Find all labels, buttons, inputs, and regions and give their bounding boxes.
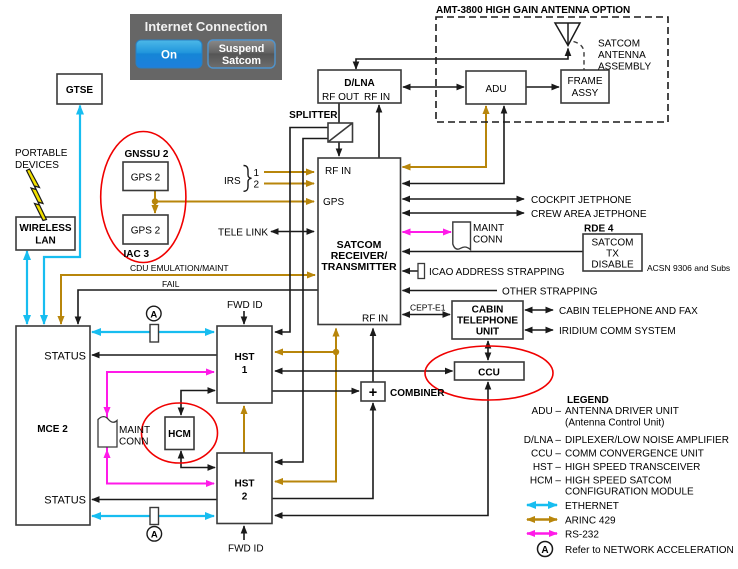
symbol network accel rect bottom <box>150 508 159 525</box>
box SATCOM TX DISABLE <box>583 234 642 271</box>
svg-text:ICAO ADDRESS STRAPPING: ICAO ADDRESS STRAPPING <box>429 267 565 278</box>
svg-text:RDE 4: RDE 4 <box>584 224 614 235</box>
wire ARINC IRS 2 <box>264 183 314 185</box>
svg-text:DISABLE: DISABLE <box>591 260 634 271</box>
wire CREW AREA JETPHONE <box>403 212 525 214</box>
circle A bottom <box>147 527 162 542</box>
box HCM <box>165 417 194 450</box>
wire FAIL SATCOM R/T to MCE2 <box>78 290 318 324</box>
box CCU <box>455 362 525 380</box>
svg-text:GPS 2: GPS 2 <box>131 173 161 184</box>
svg-text:HIGH SPEED TRANSCEIVER: HIGH SPEED TRANSCEIVER <box>565 462 700 473</box>
splitter <box>328 123 353 142</box>
svg-text:DEVICES: DEVICES <box>15 160 59 171</box>
svg-text:A: A <box>151 530 158 541</box>
svg-text:CCU –: CCU – <box>531 449 561 460</box>
svg-text:MAINT: MAINT <box>473 223 504 234</box>
svg-text:D/LNA: D/LNA <box>344 78 375 89</box>
svg-text:Refer to NETWORK ACCELERATION: Refer to NETWORK ACCELERATION <box>565 545 734 556</box>
wire ARINC GPS2 box1 to box2 <box>154 191 156 214</box>
internet connection panel <box>130 14 282 80</box>
wire ARINC HST2 to HST1 <box>243 406 245 453</box>
wire HST1 to CCU <box>275 370 453 372</box>
symbol MAINT CONN near SATCOM R/T <box>453 222 471 250</box>
svg-text:ADU –: ADU – <box>532 406 562 417</box>
dashed curve antenna to frame assy <box>574 42 585 70</box>
svg-text:D/LNA –: D/LNA – <box>524 435 562 446</box>
svg-text:TX: TX <box>606 249 619 260</box>
svg-text:CCU: CCU <box>478 368 500 379</box>
box GPS2 upper <box>123 162 168 191</box>
svg-text:FAIL: FAIL <box>162 279 180 289</box>
svg-text:Satcom: Satcom <box>222 55 261 67</box>
wire RS-232 HST1 to HST2 loop with MAINT CONN <box>107 372 214 484</box>
svg-text:CDU EMULATION/MAINT: CDU EMULATION/MAINT <box>130 263 229 273</box>
svg-text:(Antenna Control Unit): (Antenna Control Unit) <box>565 418 665 429</box>
svg-text:STATUS: STATUS <box>44 351 86 363</box>
wire ADU to FRAME ASSY <box>526 86 559 88</box>
legend rs232 arrow <box>527 532 557 534</box>
red ellipse GNSSU group <box>101 132 186 263</box>
svg-text:Suspend: Suspend <box>219 43 265 55</box>
legend text <box>524 395 734 556</box>
svg-text:ETHERNET: ETHERNET <box>565 501 619 512</box>
wire CEPT-E1 SATCOM R/T to CTU <box>403 314 451 316</box>
svg-text:MCE 2: MCE 2 <box>37 424 68 435</box>
wire D/LNA RF OUT to splitter <box>338 103 340 123</box>
svg-text:FWD ID: FWD ID <box>228 544 264 555</box>
svg-text:RS-232: RS-232 <box>565 530 599 541</box>
wire COMBINER to SATCOM R/T RF IN bottom <box>372 329 374 383</box>
wire SATCOM R/T to ADU black <box>403 106 505 184</box>
box D/LNA <box>318 70 401 103</box>
svg-text:GPS 2: GPS 2 <box>131 226 161 237</box>
svg-text:RF IN: RF IN <box>362 314 388 325</box>
box GTSE <box>57 74 102 104</box>
svg-text:LAN: LAN <box>35 236 56 247</box>
svg-text:TRANSMITTER: TRANSMITTER <box>321 261 397 273</box>
wire HCM to HST2 <box>181 451 215 468</box>
dashed box AMT-3800 option <box>436 17 668 122</box>
svg-text:ANTENNA DRIVER UNIT: ANTENNA DRIVER UNIT <box>565 406 679 417</box>
svg-text:AMT-3800 HIGH GAIN ANTENNA OPT: AMT-3800 HIGH GAIN ANTENNA OPTION <box>436 5 630 16</box>
svg-text:1: 1 <box>242 365 248 376</box>
svg-text:TELEPHONE: TELEPHONE <box>457 316 518 327</box>
svg-text:COCKPIT JETPHONE: COCKPIT JETPHONE <box>531 195 632 206</box>
svg-text:A: A <box>150 309 157 320</box>
wire ethernet MCE2 to HST1 <box>92 331 214 333</box>
svg-text:HST –: HST – <box>533 462 562 473</box>
symbol network accel rect top <box>150 325 159 343</box>
svg-text:IAC 3: IAC 3 <box>124 249 150 260</box>
svg-text:CABIN TELEPHONE AND FAX: CABIN TELEPHONE AND FAX <box>559 306 698 317</box>
svg-text:SATCOM: SATCOM <box>598 39 640 50</box>
wire TELE LINK <box>271 231 314 233</box>
svg-text:ADU: ADU <box>485 84 506 95</box>
box COMBINER <box>361 382 385 401</box>
wire ARINC SATCOM R/T bottom to HST1/HST2 <box>335 329 337 353</box>
svg-text:OTHER STRAPPING: OTHER STRAPPING <box>502 287 598 298</box>
wire antenna to D/LNA <box>356 49 568 70</box>
svg-text:CABIN: CABIN <box>472 305 504 316</box>
wire ICAO ADDRESS STRAPPING <box>403 270 425 272</box>
svg-text:PORTABLE: PORTABLE <box>15 148 68 159</box>
box SATCOM RECEIVER/TRANSMITTER <box>318 158 401 325</box>
svg-text:SATCOM: SATCOM <box>591 238 633 249</box>
wire CTU to CCU <box>487 341 489 360</box>
box CABIN TELEPHONE UNIT <box>452 301 523 339</box>
box WIRELESS LAN <box>16 217 75 250</box>
circle A top <box>147 306 162 321</box>
symbol ICAO strapping connector <box>418 264 425 279</box>
red ellipse HCM <box>142 403 218 463</box>
wire ARINC SATCOM R/T to ADU <box>403 106 487 167</box>
box FRAME ASSY <box>561 70 609 103</box>
wire CTU to IRIDIUM COMM SYSTEM <box>525 329 553 331</box>
svg-text:ASSEMBLY: ASSEMBLY <box>598 62 651 73</box>
box HST2 <box>217 453 272 524</box>
legend ethernet arrow <box>527 504 557 507</box>
wire FWD ID to HST1 <box>243 311 245 324</box>
svg-text:1: 1 <box>254 168 260 179</box>
wire COCKPIT JETPHONE <box>403 198 525 200</box>
IRS brace <box>244 166 252 192</box>
box GPS2 lower <box>123 215 168 244</box>
svg-text:FWD ID: FWD ID <box>227 300 263 311</box>
svg-text:HST: HST <box>235 352 255 363</box>
wire OTHER STRAPPING <box>403 290 498 292</box>
svg-text:FRAME: FRAME <box>568 76 603 87</box>
box MCE2 <box>16 326 90 525</box>
svg-text:COMBINER: COMBINER <box>390 388 445 399</box>
svg-text:RF OUT: RF OUT <box>322 92 359 103</box>
wire ARINC GPS2 junction to SATCOM R/T GPS input <box>155 201 314 203</box>
svg-text:UNIT: UNIT <box>476 327 499 338</box>
box ADU <box>466 71 526 104</box>
svg-text:LEGEND: LEGEND <box>567 395 609 406</box>
svg-text:GPS: GPS <box>323 197 344 208</box>
svg-text:HCM –: HCM – <box>530 476 562 487</box>
svg-text:RF IN: RF IN <box>325 166 351 177</box>
svg-text:A: A <box>541 545 548 556</box>
wire ARINC IRS 1 <box>264 171 314 173</box>
svg-text:HIGH SPEED SATCOM: HIGH SPEED SATCOM <box>565 476 672 487</box>
wire CCU to HST2 <box>275 382 488 516</box>
svg-text:CONN: CONN <box>119 437 148 448</box>
svg-text:2: 2 <box>242 492 248 503</box>
svg-text:CREW AREA JETPHONE: CREW AREA JETPHONE <box>531 209 647 220</box>
wire splitter to SATCOM R/T RF IN <box>338 142 340 156</box>
wire HST1 to COMBINER <box>272 390 359 392</box>
svg-text:STATUS: STATUS <box>44 495 86 507</box>
wire D/LNA to ADU <box>403 86 464 88</box>
svg-text:Internet Connection: Internet Connection <box>145 19 268 34</box>
svg-text:SPLITTER: SPLITTER <box>289 110 338 121</box>
svg-text:CEPT-E1: CEPT-E1 <box>410 303 446 313</box>
svg-text:CONFIGURATION MODULE: CONFIGURATION MODULE <box>565 487 694 498</box>
wire STATUS HST1 to MCE2 <box>92 354 217 356</box>
svg-text:ANTENNA: ANTENNA <box>598 50 646 61</box>
wire ARINC CDU EMULATION/MAINT MCE2 to SATCOM R/T <box>61 275 315 324</box>
svg-text:HCM: HCM <box>168 429 191 440</box>
wire splitter to HST1 <box>275 128 328 333</box>
box HST1 <box>217 326 272 403</box>
svg-text:MAINT: MAINT <box>119 425 150 436</box>
wire RDE4 to SATCOM R/T <box>403 251 584 253</box>
wire STATUS HST2 to MCE2 <box>92 499 217 501</box>
svg-text:2: 2 <box>254 180 260 191</box>
boxes layer <box>16 70 642 525</box>
legend arinc arrow <box>527 518 557 520</box>
wire HST2 to COMBINER bottom <box>272 403 373 499</box>
junction ARINC at 336,352 <box>333 349 339 355</box>
svg-text:RF IN: RF IN <box>364 92 390 103</box>
wire FWD ID to HST2 <box>243 526 245 540</box>
wire RS-232 SATCOM R/T to MAINT CONN <box>403 231 452 233</box>
junction GPS2 <box>152 198 158 204</box>
svg-text:HST: HST <box>235 479 255 490</box>
svg-text:+: + <box>369 385 377 401</box>
svg-text:IRIDIUM COMM SYSTEM: IRIDIUM COMM SYSTEM <box>559 326 676 337</box>
svg-text:TELE LINK: TELE LINK <box>218 228 268 239</box>
wire CTU to CABIN TELEPHONE AND FAX <box>525 309 553 311</box>
antenna symbol <box>555 23 580 46</box>
legend circle A <box>538 542 553 557</box>
svg-text:COMM CONVERGENCE UNIT: COMM CONVERGENCE UNIT <box>565 449 704 460</box>
symbol MAINT CONN near MCE2 <box>98 417 117 447</box>
svg-text:ACSN 9306 and Subs: ACSN 9306 and Subs <box>647 263 730 273</box>
svg-text:GTSE: GTSE <box>66 85 94 96</box>
svg-text:GNSSU 2: GNSSU 2 <box>125 149 169 160</box>
wire ethernet WIRELESS LAN to MCE2 <box>26 251 28 324</box>
svg-text:DIPLEXER/LOW NOISE AMPLIFIER: DIPLEXER/LOW NOISE AMPLIFIER <box>565 435 729 446</box>
wire SATCOM R/T top to D/LNA RF IN <box>378 105 380 158</box>
svg-text:On: On <box>161 50 177 62</box>
wire ethernet MCE2 to HST2 <box>92 515 214 517</box>
svg-text:CONN: CONN <box>473 235 502 246</box>
svg-text:WIRELESS: WIRELESS <box>19 223 72 234</box>
wire ethernet GTSE to MCE2 <box>44 106 80 325</box>
svg-text:ASSY: ASSY <box>572 88 599 99</box>
svg-text:ARINC 429: ARINC 429 <box>565 516 616 527</box>
wire HST1 to HCM <box>181 391 215 416</box>
lightning bolt portable devices <box>27 169 47 221</box>
red ellipse CCU <box>425 346 553 400</box>
wire splitter to HST2 <box>275 139 328 463</box>
svg-text:IRS: IRS <box>224 176 241 187</box>
